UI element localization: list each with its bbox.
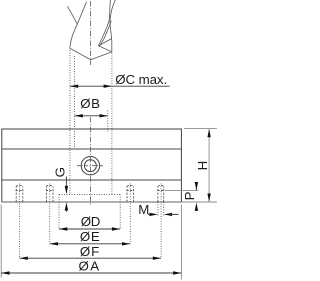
block inner line 2 — [2, 179, 182, 181]
H top extension line — [184, 128, 217, 130]
P top extension line (pin shoulder) — [165, 189, 199, 191]
dimension ØF — [20, 244, 162, 260]
pin 2 hidden — [46, 185, 54, 202]
svg-text:ØE: ØE — [80, 229, 100, 244]
pin 3 hidden — [127, 185, 135, 202]
svg-text:P: P — [182, 191, 197, 200]
drill centerline (upper) — [90, 1, 92, 65]
svg-text:ØD: ØD — [81, 214, 101, 229]
center hole circle inner — [85, 160, 97, 172]
pin 1 hidden — [16, 185, 24, 202]
svg-text:ØB: ØB — [80, 96, 100, 111]
extension ØC right / hidden hole wall right — [111, 53, 113, 194]
drill bit outline — [68, 0, 116, 60]
center hole circle outer — [81, 157, 99, 175]
svg-text:M: M — [138, 202, 149, 217]
dimension ØD — [59, 214, 120, 231]
svg-text:ØF: ØF — [80, 244, 99, 259]
dimension H — [195, 129, 211, 202]
block inner line 1 — [2, 148, 182, 150]
M leader right segment — [164, 213, 172, 216]
svg-text:H: H — [195, 161, 210, 171]
G leader and arrows — [65, 177, 67, 191]
ØA extension right — [180, 205, 182, 280]
extension ØB left — [74, 56, 76, 149]
recess wall / ØD extension left — [58, 194, 60, 229]
dimension ØB — [75, 96, 108, 118]
svg-text:G: G — [52, 167, 67, 177]
dimension ØE — [50, 229, 131, 245]
circle horizontal centerline — [77, 165, 104, 167]
workpiece block outline — [2, 129, 182, 202]
M leader left segment — [148, 213, 152, 215]
pin 2 center extension — [49, 184, 51, 245]
extension ØB right — [107, 111, 109, 133]
pin 3 center extension — [129, 184, 131, 245]
block bottom extension line (H/P bottom) — [181, 201, 217, 203]
drill centerline (lower, through block) — [90, 117, 92, 206]
hidden recess floor dotted — [59, 193, 120, 195]
extension ØC left / hidden hole wall left — [69, 50, 71, 194]
pin 4 center extension — [160, 184, 162, 259]
dimension ØA — [1, 259, 181, 275]
dimension P — [182, 182, 198, 211]
dimension ØC max. — [70, 72, 170, 88]
pin 4 hidden — [157, 185, 164, 202]
ØA extension left — [0, 205, 2, 278]
pin 4 edge extensions for M — [158, 202, 164, 216]
recess wall / ØD extension right — [119, 194, 121, 229]
pin 1 center extension — [19, 184, 21, 259]
svg-text:ØC max.: ØC max. — [115, 72, 167, 87]
